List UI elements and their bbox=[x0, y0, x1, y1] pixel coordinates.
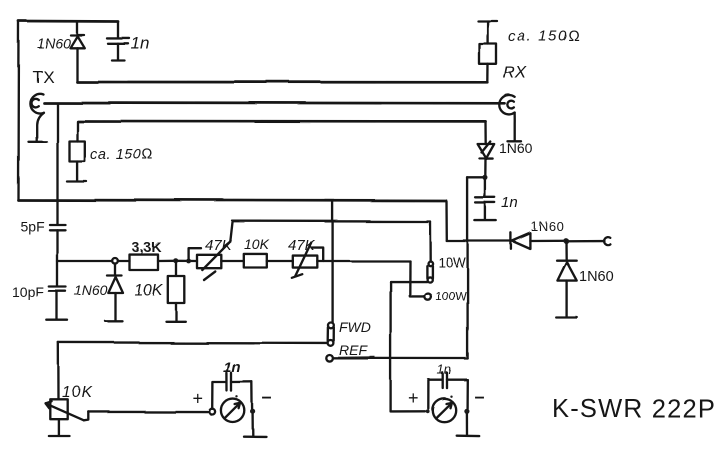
wire vertical x390 down to M2 bbox=[389, 282, 391, 412]
wire P3 to meter M1 bbox=[88, 410, 209, 413]
wire to M2 plus terminal bbox=[391, 410, 425, 412]
svg-text:47K: 47K bbox=[205, 237, 233, 254]
jack FWD (plug inserted) bbox=[328, 323, 334, 346]
resistor R5 10K (series) bbox=[244, 254, 293, 268]
svg-text:10K: 10K bbox=[134, 282, 164, 299]
wire chain y261 left segment bbox=[57, 260, 130, 262]
diode D1 1N60 (TX detector, top-left) bbox=[70, 22, 84, 83]
potentiometer P1 47K bbox=[189, 221, 233, 280]
capacitor C6 10pF bbox=[47, 287, 68, 321]
svg-text:ca. 150Ω: ca. 150Ω bbox=[90, 147, 154, 163]
ground M1 bbox=[244, 414, 267, 437]
wire wiper line y221 bbox=[233, 220, 430, 223]
capacitor C2 1n (across M1) bbox=[212, 373, 252, 409]
wire P1 to R5 bbox=[221, 260, 244, 262]
diode D5 1N60 (shunt output) bbox=[556, 241, 577, 318]
svg-text:+: + bbox=[408, 388, 419, 408]
meter M2 (REF meter) bbox=[426, 395, 469, 422]
svg-text:FWD: FWD bbox=[339, 319, 371, 335]
node 100W open contact bbox=[424, 293, 431, 300]
ground M2 bbox=[456, 413, 479, 435]
connector TX (coax) bbox=[28, 93, 46, 141]
wire main line TX-RX y102.5 bbox=[44, 101, 505, 105]
wire 10W jack to meter M2 feed bbox=[391, 280, 427, 282]
wire right elbow down to diode row bbox=[445, 201, 448, 241]
svg-text:3,3K: 3,3K bbox=[132, 239, 162, 255]
terminal C (output hook) bbox=[604, 237, 610, 245]
svg-text:–: – bbox=[474, 386, 484, 406]
capacitor C5 5pF bbox=[50, 225, 66, 287]
svg-text:RX: RX bbox=[503, 63, 527, 82]
svg-text:1n: 1n bbox=[223, 359, 241, 376]
node REF open contact bbox=[326, 355, 333, 362]
node junction ring at diode branch bbox=[112, 258, 118, 264]
svg-text:1N60: 1N60 bbox=[74, 282, 108, 298]
resistor R1 ca.150R (TX side) bbox=[67, 121, 87, 181]
wire down to pot P3 bbox=[57, 342, 60, 399]
wire step down to 100W contact bbox=[410, 261, 424, 296]
wire RX detector lead down bbox=[484, 121, 487, 144]
svg-text:1n: 1n bbox=[437, 362, 451, 377]
svg-text:10K: 10K bbox=[244, 236, 270, 252]
wire y82 (detector bus TX) bbox=[77, 81, 487, 84]
capacitor C4 1n (across M2) bbox=[428, 373, 467, 409]
wire vertical x57 from main line bbox=[56, 103, 58, 224]
wire chain y261 right segment bbox=[317, 260, 410, 262]
svg-text:10W: 10W bbox=[438, 255, 466, 270]
node junction dot output bbox=[563, 238, 568, 243]
svg-text:5pF: 5pF bbox=[20, 218, 44, 234]
svg-text:TX: TX bbox=[32, 67, 54, 86]
capacitor C3 1n (RX filter) bbox=[475, 178, 496, 221]
diode D2 1N60 (shunt near 10pF) bbox=[106, 264, 124, 322]
potentiometer P3 10K (meter cal) bbox=[46, 399, 89, 436]
jack 10W (plug inserted) bbox=[427, 261, 433, 282]
wire y241 to series diode bbox=[447, 240, 511, 242]
svg-text:1n: 1n bbox=[502, 195, 519, 212]
resistor R3 3.3K bbox=[130, 255, 176, 270]
svg-text:1N60: 1N60 bbox=[499, 140, 533, 156]
svg-text:K-SWR 222P: K-SWR 222P bbox=[552, 395, 716, 423]
potentiometer P2 47K bbox=[292, 243, 323, 278]
wire vertical x332 (FWD feed) bbox=[331, 201, 333, 322]
svg-text:10pF: 10pF bbox=[12, 284, 44, 300]
svg-text:1N60: 1N60 bbox=[579, 269, 614, 285]
node junction dot RX detector bbox=[483, 175, 488, 180]
resistor R2 ca.150R (RX side) bbox=[478, 21, 497, 82]
node junction dot x188 bbox=[186, 259, 191, 264]
svg-text:1n: 1n bbox=[131, 34, 150, 53]
svg-text:ca. 150Ω: ca. 150Ω bbox=[508, 28, 582, 45]
wire REF line to detector vertical bbox=[333, 357, 468, 360]
wire node-A horizontal y200 bbox=[18, 200, 447, 201]
wire FWD jack to meter feed bbox=[58, 341, 327, 344]
resistor R4 10K (shunt) bbox=[166, 261, 185, 321]
wire vertical x467 (REF detector feed) bbox=[466, 178, 468, 359]
svg-text:47K: 47K bbox=[288, 237, 316, 254]
svg-text:10K: 10K bbox=[62, 384, 93, 401]
wire inner line y121 bbox=[77, 120, 485, 123]
wire wiper line elbow to 10W jack bbox=[429, 222, 432, 261]
capacitor C1 1n (top-left) bbox=[107, 22, 130, 61]
wire junction arm bbox=[468, 177, 486, 179]
meter M1 (FWD meter) bbox=[209, 395, 255, 422]
diode D4 1N60 (series output) bbox=[511, 233, 604, 249]
svg-text:–: – bbox=[262, 387, 272, 407]
wire to pot P1 bbox=[176, 260, 197, 263]
diode D3 1N60 (RX detector) bbox=[478, 142, 495, 178]
svg-text:+: + bbox=[192, 388, 203, 408]
svg-text:REF: REF bbox=[339, 342, 368, 358]
svg-text:100W: 100W bbox=[435, 289, 467, 303]
svg-text:1N60: 1N60 bbox=[531, 219, 564, 234]
connector RX (coax) bbox=[499, 95, 521, 141]
wire left outer vertical bbox=[17, 21, 20, 200]
wire top-left loop top bbox=[19, 20, 119, 23]
node junction dot x176 bbox=[173, 258, 178, 263]
svg-text:1N60: 1N60 bbox=[37, 35, 71, 51]
